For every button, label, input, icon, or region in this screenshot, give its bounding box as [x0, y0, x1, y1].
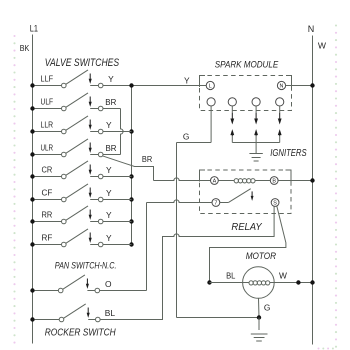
svg-text:N: N — [280, 83, 284, 89]
Y wire RR to bus — [103, 221, 132, 223]
BL wire into motor — [210, 282, 243, 284]
igniter 2 (spark gap electrodes) — [254, 106, 258, 143]
svg-text:BK: BK — [20, 43, 30, 53]
svg-text:S: S — [273, 200, 277, 206]
svg-text:L1: L1 — [30, 24, 38, 34]
wire relay 7 to pan switch: horizontal (hop over G wire) — [147, 200, 213, 203]
wire relay 7 drop to pan switch row — [100, 203, 147, 291]
igniter ground stem — [255, 143, 257, 154]
spark module output terminal 3 — [252, 98, 260, 106]
svg-text:Y: Y — [106, 165, 112, 175]
igniter 1 (spark gap electrodes) — [230, 106, 234, 143]
svg-text:RF: RF — [42, 232, 53, 242]
svg-text:RR: RR — [42, 209, 53, 219]
svg-text:L: L — [209, 83, 212, 89]
L1 supply bus (BK wire) — [30, 35, 34, 344]
BR stub from ULR contact to ULF drop — [103, 154, 121, 156]
spark module terminal L — [206, 81, 214, 89]
svg-text:ULR: ULR — [41, 142, 54, 152]
svg-text:BR: BR — [106, 143, 117, 153]
igniter common bus — [232, 142, 279, 144]
svg-text:A: A — [213, 178, 217, 184]
svg-text:Y: Y — [184, 76, 190, 86]
motor ground stem — [257, 298, 261, 330]
svg-text:CR: CR — [42, 164, 53, 174]
svg-text:G: G — [264, 303, 271, 313]
Y wire LLF to spark module terminal L — [103, 85, 206, 87]
Y wire LLR to bus — [103, 131, 132, 133]
valve switch ULF — [35, 93, 103, 111]
svg-text:BL: BL — [105, 308, 116, 318]
svg-text:LLR: LLR — [41, 119, 54, 129]
valve switch RR — [35, 206, 103, 224]
BR diagonal wire from ULR contact toward relay coil A — [102, 156, 153, 181]
Y wire CR to bus — [103, 176, 132, 178]
wire relay S diagonal to motor BL — [210, 206, 286, 283]
svg-text:ULF: ULF — [41, 96, 54, 106]
wire spark N to N bus — [286, 83, 315, 87]
wire relay S to rocker switch (hop over G wire) — [100, 207, 274, 320]
svg-text:PAN SWITCH-N.C.: PAN SWITCH-N.C. — [55, 261, 117, 272]
svg-text:N: N — [308, 24, 315, 34]
svg-text:LLF: LLF — [41, 73, 54, 83]
svg-text:ROCKER SWITCH: ROCKER SWITCH — [45, 327, 116, 339]
relay coil terminal B — [270, 177, 278, 185]
svg-text:G: G — [183, 132, 190, 142]
wire relay B to N bus — [278, 178, 315, 182]
N supply bus — [312, 36, 314, 345]
svg-text:Y: Y — [106, 210, 112, 220]
Y wire RF to bus — [103, 244, 132, 246]
svg-text:BR: BR — [142, 154, 152, 164]
svg-text:B: B — [272, 178, 276, 184]
spark module dashed box — [200, 76, 292, 111]
relay coil terminal A — [211, 177, 219, 185]
spark module output terminal 4 — [276, 98, 284, 106]
rocker switch — [35, 304, 101, 322]
relay dashed box — [200, 170, 292, 214]
svg-text:Y: Y — [108, 74, 114, 84]
svg-text:CF: CF — [42, 187, 53, 197]
igniter 3 (spark gap electrodes) — [278, 106, 282, 143]
svg-text:RELAY: RELAY — [231, 222, 262, 233]
svg-text:MOTOR: MOTOR — [246, 251, 277, 261]
spark module output terminal 2 — [228, 98, 236, 106]
valve switch RF — [35, 229, 103, 247]
svg-text:SPARK MODULE: SPARK MODULE — [215, 60, 279, 70]
svg-text:Y: Y — [106, 120, 112, 130]
G wire: spark module ground to motor ground (hops over 3 wires) — [177, 106, 260, 318]
valve switch CR — [35, 161, 103, 179]
relay switch terminal S — [271, 199, 279, 207]
motor winding coil — [243, 281, 275, 285]
spark module terminal N — [277, 81, 285, 89]
valve switch CF — [35, 184, 103, 202]
svg-text:7: 7 — [214, 200, 217, 206]
spark module output terminal 1 (ground) — [207, 98, 215, 106]
valve switch LLR — [35, 116, 103, 134]
svg-text:IGNITERS: IGNITERS — [270, 148, 306, 159]
ground symbol (igniters) — [249, 154, 262, 162]
Y bus vertical — [129, 83, 133, 246]
valve switch LLF — [35, 70, 103, 88]
W wire motor to N bus — [274, 280, 314, 284]
svg-text:VALVE SWITCHES: VALVE SWITCHES — [45, 57, 120, 69]
relay coil A-B — [218, 179, 270, 183]
svg-text:O: O — [105, 279, 112, 289]
svg-text:W: W — [279, 271, 287, 281]
svg-text:Y: Y — [106, 188, 112, 198]
ground symbol (motor) — [251, 334, 268, 341]
relay switch terminal 7 — [212, 199, 220, 207]
motor circle — [243, 267, 275, 299]
valve switch ULR — [35, 139, 103, 157]
BR wire ULF: right then down to ULR junction (hop over LLR Y wire) — [103, 108, 121, 110]
relay actuator arrow — [251, 191, 253, 197]
svg-text:Y: Y — [106, 233, 112, 243]
svg-text:BR: BR — [105, 97, 116, 107]
Y wire CF to bus — [103, 199, 132, 201]
junction dot on BL wire — [207, 280, 211, 284]
svg-text:BL: BL — [226, 271, 236, 281]
BR wire into relay terminal A (hop over G wire) — [154, 178, 211, 181]
pan switch — [35, 275, 100, 293]
relay switch blade — [220, 189, 251, 203]
svg-text:W: W — [318, 41, 327, 51]
